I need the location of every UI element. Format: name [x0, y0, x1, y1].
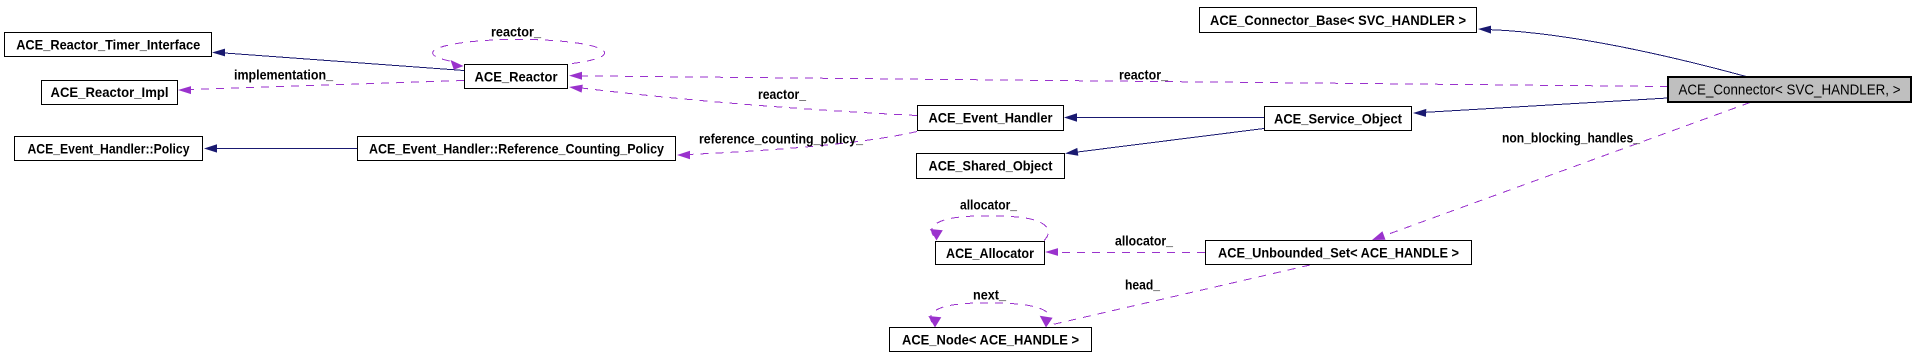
svg-text:non_blocking_handles_: non_blocking_handles_ — [1502, 130, 1640, 146]
svg-text:allocator_: allocator_ — [960, 197, 1017, 213]
svg-text:ACE_Connector< SVC_HANDLER, >: ACE_Connector< SVC_HANDLER, > — [1679, 82, 1901, 99]
svg-text:ACE_Node< ACE_HANDLE >: ACE_Node< ACE_HANDLE > — [902, 331, 1079, 347]
svg-text:ACE_Event_Handler::Reference_C: ACE_Event_Handler::Reference_Counting_Po… — [369, 140, 664, 156]
svg-text:head_: head_ — [1125, 277, 1160, 293]
svg-text:ACE_Service_Object: ACE_Service_Object — [1274, 110, 1402, 126]
svg-text:ACE_Connector_Base< SVC_HANDLE: ACE_Connector_Base< SVC_HANDLER > — [1210, 12, 1466, 28]
svg-text:next_: next_ — [973, 287, 1006, 303]
svg-text:ACE_Event_Handler::Policy: ACE_Event_Handler::Policy — [28, 140, 190, 156]
svg-text:ACE_Event_Handler: ACE_Event_Handler — [929, 109, 1053, 125]
svg-text:ACE_Allocator: ACE_Allocator — [946, 245, 1034, 261]
svg-text:ACE_Reactor_Impl: ACE_Reactor_Impl — [51, 84, 169, 100]
svg-text:ACE_Unbounded_Set< ACE_HANDLE: ACE_Unbounded_Set< ACE_HANDLE > — [1218, 244, 1459, 260]
svg-text:ACE_Shared_Object: ACE_Shared_Object — [929, 157, 1053, 173]
svg-text:ACE_Reactor: ACE_Reactor — [475, 68, 559, 84]
svg-text:reference_counting_policy_: reference_counting_policy_ — [699, 131, 863, 147]
svg-text:reactor_: reactor_ — [758, 86, 806, 102]
svg-text:reactor_: reactor_ — [1119, 67, 1168, 83]
svg-text:allocator_: allocator_ — [1115, 233, 1173, 249]
svg-text:reactor_: reactor_ — [491, 24, 541, 40]
svg-text:ACE_Reactor_Timer_Interface: ACE_Reactor_Timer_Interface — [16, 37, 200, 53]
svg-text:implementation_: implementation_ — [234, 67, 333, 83]
